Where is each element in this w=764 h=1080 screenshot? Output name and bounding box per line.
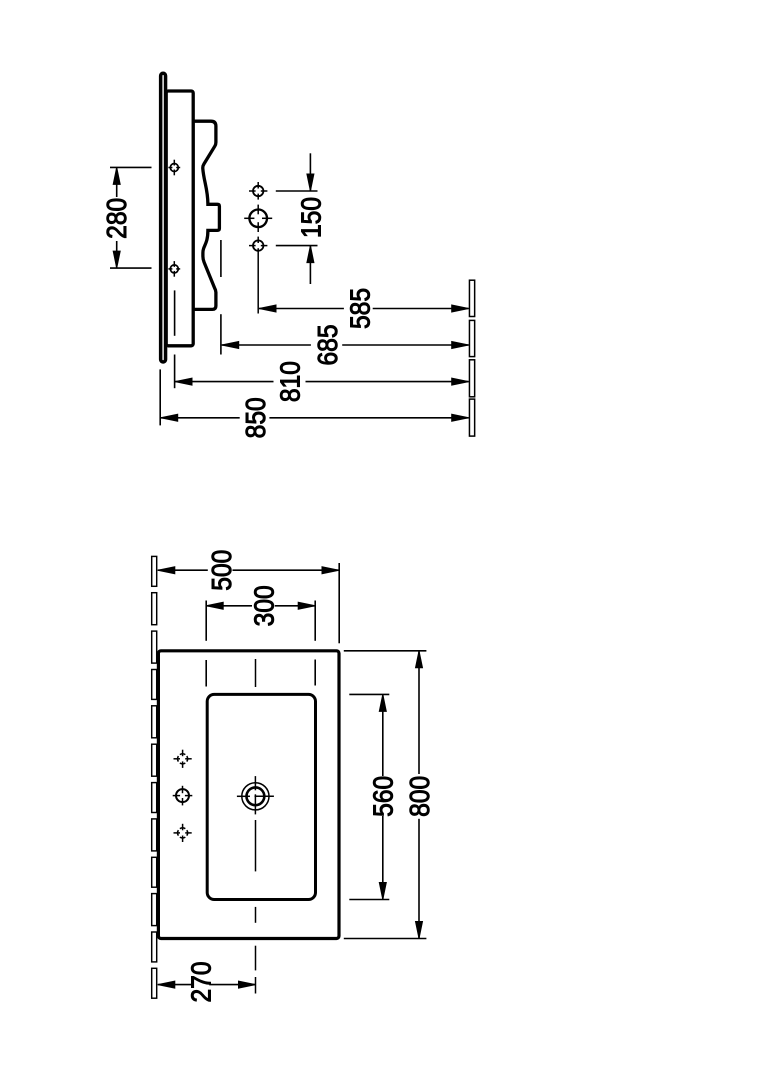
svg-text:500: 500 bbox=[206, 550, 238, 591]
svg-text:800: 800 bbox=[403, 776, 435, 817]
svg-text:810: 810 bbox=[274, 361, 306, 402]
svg-text:685: 685 bbox=[311, 324, 343, 365]
svg-text:585: 585 bbox=[344, 288, 376, 329]
svg-text:850: 850 bbox=[239, 397, 271, 438]
svg-text:560: 560 bbox=[367, 776, 399, 817]
svg-text:300: 300 bbox=[248, 585, 280, 626]
svg-text:280: 280 bbox=[100, 198, 132, 239]
svg-text:150: 150 bbox=[295, 197, 327, 238]
svg-text:270: 270 bbox=[185, 961, 217, 1002]
